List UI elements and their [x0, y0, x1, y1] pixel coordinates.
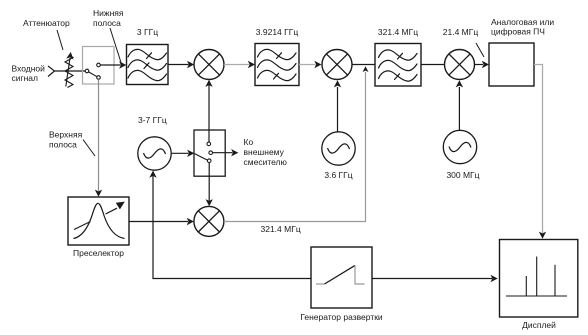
svg-text:Генератор развертки: Генератор развертки [300, 312, 383, 322]
S2 blade [195, 154, 208, 161]
mixer M2 [322, 50, 352, 80]
wire M1 LO port down to S2 top contact [208, 82, 210, 143]
wire FL1 to mixer M1 [168, 64, 189, 66]
S1 blade [89, 72, 97, 77]
svg-text:321.4 МГц: 321.4 МГц [261, 224, 301, 234]
wire M1 to FL2 (gray) [224, 64, 249, 66]
sawtooth symbol [316, 265, 365, 284]
wire M4 output feedback to main chain (gray) [224, 72, 366, 222]
band switch S1 [83, 47, 115, 85]
wire sweep generator to display [372, 278, 492, 280]
preselector tuning arrow [74, 222, 91, 230]
svg-text:21.4 МГц: 21.4 МГц [443, 27, 479, 37]
svg-text:Аттенюатор: Аттенюатор [23, 18, 70, 28]
wire S1 upper contact to filter FL1 [100, 64, 120, 66]
svg-text:Преселектор: Преселектор [73, 248, 124, 258]
wire G1 to S2 [171, 152, 188, 154]
wire G2 up to M2 [337, 87, 339, 132]
sweep generator G4 [311, 247, 372, 308]
display U2 [500, 240, 578, 318]
wire S2 lower contact down to mixer M4 [208, 163, 210, 201]
svg-text:3.6 ГГц: 3.6 ГГц [324, 170, 352, 180]
filter FL1 3 GHz low-pass [127, 45, 169, 85]
node S2 middle contact [209, 151, 213, 155]
leader line to lower band arrow [110, 28, 121, 63]
LO switch S2 [194, 130, 225, 176]
filter FL2 3.9214 GHz [255, 44, 299, 86]
oscillator G3 300 MHz [443, 130, 476, 163]
mixer M3 [445, 50, 475, 80]
IF block U1 [489, 43, 534, 86]
node S1 input contact [85, 69, 89, 73]
leader line 21.4 [476, 43, 484, 57]
svg-text:3.9214 ГГц: 3.9214 ГГц [256, 27, 299, 37]
svg-text:3-7 ГГц: 3-7 ГГц [138, 115, 167, 125]
oscillator G2 3.6 GHz [322, 132, 355, 165]
svg-text:300 МГц: 300 МГц [446, 170, 479, 180]
svg-text:321.4 МГц: 321.4 МГц [378, 27, 418, 37]
filter FL3 321.4 MHz [375, 44, 421, 87]
wire M2 to FL3 [352, 64, 375, 66]
wire FL2 to mixer M2 (gray) [299, 64, 316, 66]
wire input to switch contact [55, 70, 86, 72]
input chevron [48, 66, 55, 77]
wire preselector to mixer M4 [129, 221, 188, 223]
wire upper band: S1 lower contact down to preselector [98, 79, 100, 191]
oscillator G1 3-7 GHz [138, 137, 171, 170]
mixer M4 (upper band) [194, 206, 224, 236]
wire sweep generator to G1 [153, 173, 311, 279]
node S1 lower contact [97, 76, 101, 80]
mixer M1 [194, 50, 224, 80]
wire G3 up to M3 [458, 87, 460, 130]
wire IF to display (gray) [534, 65, 543, 234]
node S2 top contact [207, 142, 211, 146]
node S1 upper contact [97, 63, 101, 67]
preselector bell curve [74, 203, 125, 238]
leader line to attenuator [57, 30, 63, 50]
display spectrum trace [506, 257, 567, 297]
node S2 lower contact [207, 159, 211, 163]
wire S2 middle contact to external mixer [213, 152, 233, 154]
wire M3 to IF block [475, 64, 483, 66]
svg-text:3 ГГц: 3 ГГц [137, 27, 158, 37]
wire FL3 to mixer M3 [421, 64, 444, 66]
attenuator R (variable) [65, 55, 73, 88]
leader line upper band [83, 140, 95, 157]
preselector FL4 [68, 197, 129, 245]
svg-text:Дисплей: Дисплей [522, 320, 556, 330]
